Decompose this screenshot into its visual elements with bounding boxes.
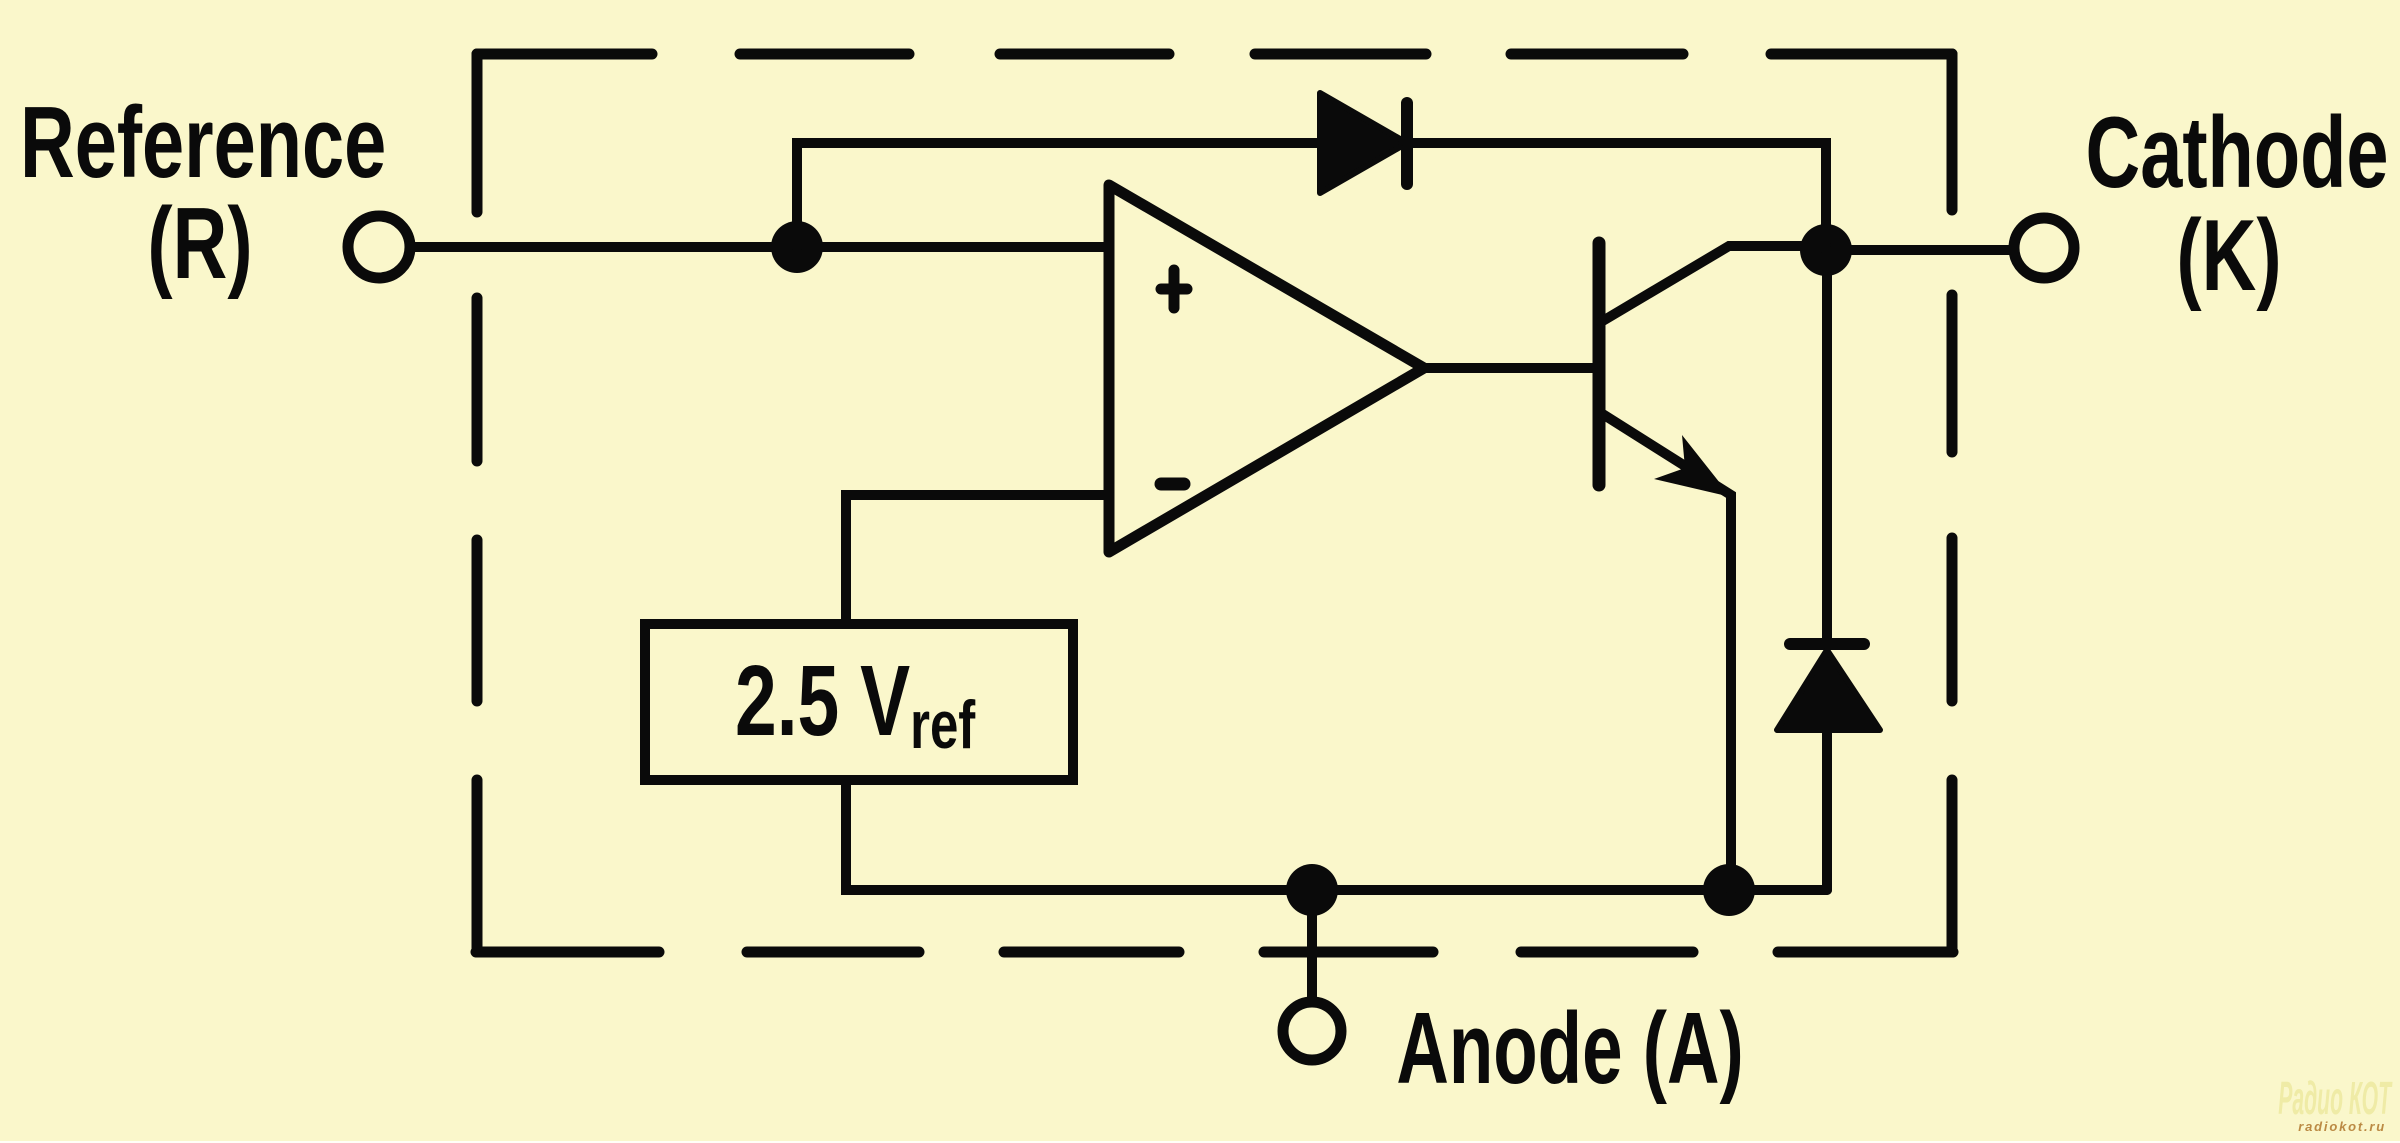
svg-text:Reference: Reference	[20, 85, 386, 198]
svg-text:radiokot.ru: radiokot.ru	[2298, 1119, 2386, 1134]
svg-text:(K): (K)	[2176, 198, 2281, 311]
wire: op-amp output to transistor base	[1424, 363, 1599, 373]
wire: anode node down to terminal A	[1307, 890, 1317, 999]
svg-text:(R): (R)	[147, 186, 252, 299]
terminal K (cathode pin circle)	[2014, 218, 2074, 278]
svg-text:Anode (A): Anode (A)	[1396, 991, 1743, 1105]
node: anode junction dot	[1286, 864, 1338, 916]
voltage reference box 2.5 Vref	[645, 624, 1073, 780]
op-amp U1	[1109, 185, 1424, 552]
node: reference junction dot	[771, 221, 823, 273]
terminal R (reference pin circle)	[348, 216, 410, 278]
svg-text:Радио КОТ: Радио КОТ	[2278, 1073, 2393, 1124]
op-amp - input symbol	[1161, 478, 1184, 491]
diode D2 (protection diode, pointing up)	[1777, 250, 1880, 890]
wire: R terminal to op-amp + input	[415, 242, 1109, 252]
svg-text:Cathode: Cathode	[2086, 95, 2389, 208]
transistor Q1 base bar	[1593, 243, 1606, 485]
wire: Vref box bottom to anode rail	[846, 780, 1827, 890]
wire: diode cathode to corner, down to cathode node	[1407, 143, 1826, 250]
transistor Q1 emitter wire with arrow	[1601, 413, 1731, 890]
wire: cathode node to terminal K	[1826, 245, 2012, 255]
wire: op-amp - input to Vref box top	[846, 495, 1109, 624]
wire: junction up to top rail	[797, 143, 1320, 247]
transistor Q1 collector wire	[1601, 246, 1826, 322]
terminal A (anode pin circle)	[1283, 1002, 1341, 1060]
node: cathode junction dot	[1800, 224, 1852, 276]
op-amp + input symbol	[1161, 270, 1187, 308]
node: emitter junction dot	[1703, 864, 1755, 916]
diode D1 (top diode, anode left)	[1320, 93, 1407, 193]
dashed IC boundary	[476, 54, 1953, 952]
